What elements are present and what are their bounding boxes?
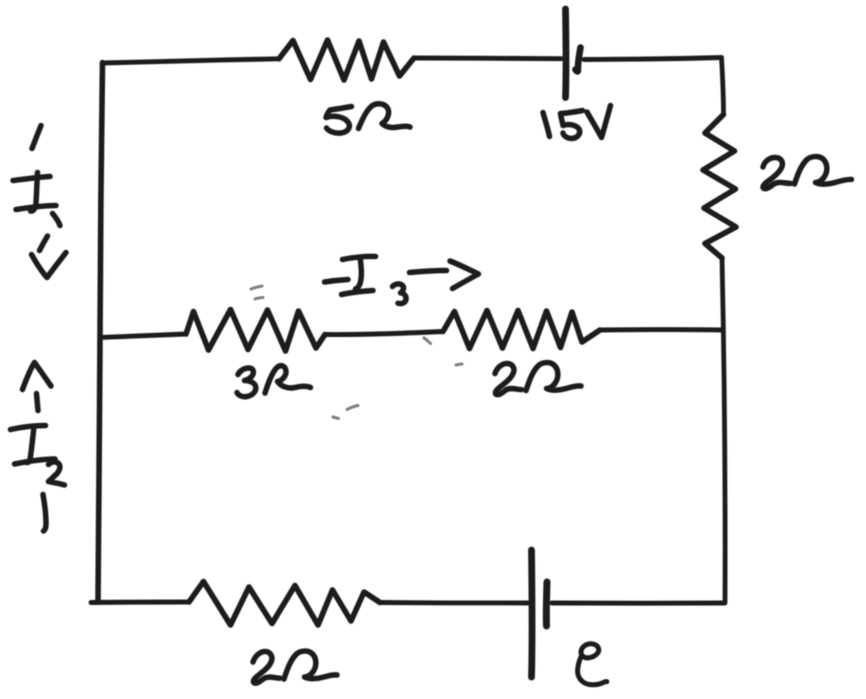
wire top middle segment <box>414 56 561 62</box>
wire top right segment <box>584 58 722 60</box>
wire middle center segment <box>325 332 443 335</box>
resistor R4 2ohm middle <box>443 311 600 349</box>
resistor R3 3ohm <box>186 310 325 352</box>
wire right lower <box>722 258 725 603</box>
wire top left segment <box>103 59 280 63</box>
resistor R1 5ohm <box>279 40 414 80</box>
wire bottom right segment <box>552 601 724 606</box>
label 5ohm value <box>326 104 410 133</box>
resistor R5 2ohm bottom <box>189 582 380 626</box>
label I3 with arrow <box>325 256 479 303</box>
label 3ohm value <box>237 366 311 397</box>
wire bottom middle segment <box>380 600 528 605</box>
battery B2 long plate <box>528 550 535 677</box>
wire middle left segment <box>100 334 186 338</box>
label I1 with arrow rotated <box>13 126 66 278</box>
wire left vertical <box>98 63 103 602</box>
smudge marks <box>251 286 462 419</box>
battery B1 short plate <box>576 48 581 72</box>
battery B1 long plate <box>562 9 569 98</box>
label 15V value <box>543 106 611 139</box>
label I2 with arrow rotated <box>11 363 65 532</box>
wire right upper <box>722 58 724 115</box>
wire middle right segment <box>600 327 723 332</box>
resistor R2 2ohm right <box>703 115 736 259</box>
label epsilon value <box>578 644 607 685</box>
label 2ohm value right <box>763 157 852 189</box>
label 2ohm value bottom <box>253 651 337 683</box>
label 2ohm value middle <box>495 363 581 395</box>
wire bottom left segment <box>91 600 189 605</box>
battery B2 short plate <box>543 582 551 626</box>
